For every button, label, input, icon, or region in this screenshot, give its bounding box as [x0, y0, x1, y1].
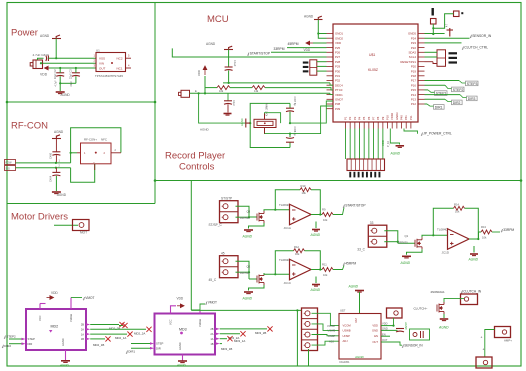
- svg-text:_: _: [92, 159, 95, 163]
- svg-text:2B: 2B: [81, 323, 84, 327]
- svg-text:U1: U1: [96, 49, 100, 53]
- wires connector 33 to mosfet gate: [384, 231, 398, 244]
- cap C10 loop green: [410, 329, 430, 340]
- svg-text:AGND: AGND: [404, 321, 408, 330]
- connector SV1 right of MCU: [437, 50, 446, 67]
- svg-text:STEP: STEP: [156, 342, 163, 346]
- svg-text:VDD2: VDD2: [390, 112, 394, 120]
- ground symbol AGND mcu top: [314, 16, 323, 19]
- svg-text:R12: R12: [294, 245, 299, 249]
- svg-text:Q3: Q3: [247, 210, 251, 214]
- wires MCU to SV1: [425, 51, 438, 53]
- wire loop to RF pin1: [71, 152, 77, 154]
- svg-text:C#07 8p: C#07 8p: [293, 97, 296, 107]
- svg-text:VMOT: VMOT: [208, 301, 217, 305]
- VDD arrow MD3: [177, 304, 184, 308]
- svg-text:P8: P8: [376, 116, 380, 120]
- wire agnd to C6: [228, 50, 230, 68]
- svg-text:33RPM: 33RPM: [274, 47, 285, 51]
- crystal agnd loop: [250, 103, 290, 147]
- svg-text:P2: P2: [348, 116, 352, 120]
- svg-text:NFC: NFC: [101, 138, 107, 142]
- feedback wire right JC1C: [305, 251, 321, 270]
- VDD arrow mid: [203, 66, 207, 75]
- svg-text:P41: P41: [404, 115, 408, 120]
- svg-text:AGND: AGND: [240, 118, 244, 126]
- net label JP_POWER_CTRL: [404, 129, 418, 134]
- wire Q2 source to gnd: [443, 314, 445, 318]
- svg-text:DG4451: DG4451: [340, 360, 351, 364]
- wire VMOT vertical from divider: [190, 181, 192, 311]
- wire C4 to net: [55, 155, 57, 163]
- MD3 top pins: [170, 308, 172, 314]
- svg-text:P12: P12: [411, 102, 417, 106]
- svg-text:R14: R14: [454, 203, 459, 207]
- wire POW net: [16, 162, 71, 164]
- X marks stray MD2 left: [122, 323, 127, 328]
- svg-text:0.1uF: 0.1uF: [233, 60, 236, 67]
- resistor R1: [217, 86, 230, 90]
- svg-text:P10: P10: [386, 115, 390, 120]
- U1 right pin stubs: [126, 57, 132, 59]
- ground symbol AGND rfcon top: [52, 135, 61, 139]
- wire output JC1A: [311, 214, 322, 216]
- wire SIG to bottom pin: [71, 164, 95, 183]
- wire mosfet source to ground: [407, 249, 423, 255]
- svg-text:2A: 2A: [81, 328, 84, 332]
- svg-text:USWB: USWB: [328, 329, 336, 333]
- svg-text:VDD: VDD: [51, 291, 58, 295]
- svg-text:AGND: AGND: [206, 42, 216, 46]
- svg-text:TPS7A4533TPS7A45: TPS7A4533TPS7A45: [95, 74, 123, 78]
- connector MOT single pin: [73, 220, 90, 231]
- svg-text:AGND: AGND: [304, 15, 314, 19]
- svg-text:P25: P25: [335, 46, 341, 50]
- ground symbol AGND below mcu: [396, 146, 405, 148]
- wire C2 down: [59, 76, 61, 83]
- ground symbol Q2 source: [244, 292, 253, 294]
- wire 33RPM to pin: [287, 47, 327, 49]
- svg-text:RF-CON+: RF-CON+: [84, 138, 97, 142]
- svg-text:OUT: OUT: [382, 338, 388, 342]
- svg-text:TL084D: TL084D: [437, 228, 449, 232]
- op-amp power ground JC1A: [315, 222, 317, 229]
- svg-text:MD2_1B: MD2_1B: [93, 343, 104, 347]
- svg-text:AGND: AGND: [354, 355, 365, 359]
- svg-text:SENSOR_IN: SENSOR_IN: [404, 344, 423, 348]
- svg-text:22uF: 22uF: [70, 81, 73, 87]
- svg-text:SCL4: SCL4: [409, 55, 417, 59]
- svg-text:P29: P29: [335, 65, 341, 69]
- svg-text:DIR2: DIR2: [4, 344, 11, 348]
- svg-text:45_C: 45_C: [209, 278, 217, 282]
- wire MD3_1B with X: [220, 343, 222, 345]
- MCU left pin names and stubs: [327, 32, 344, 111]
- op-amp power ground JC1D: [473, 246, 475, 253]
- net label DIR2 left: [2, 345, 4, 348]
- svg-text:MOT: MOT: [80, 230, 87, 234]
- wire J4 common down: [308, 349, 310, 366]
- net label START/STOP: [343, 205, 345, 208]
- net xtal2 to MCU pin: [265, 106, 334, 134]
- capacitor C4: [52, 152, 60, 155]
- svg-text:CLUTCH~: CLUTCH~: [414, 307, 428, 311]
- svg-text:RFP630: RFP630: [398, 241, 408, 245]
- svg-text:AGND: AGND: [59, 363, 70, 367]
- wire Q2 drain to connector: [444, 298, 464, 302]
- connector TP VDD 1pin: [387, 308, 403, 318]
- RF module U2 box: [81, 143, 112, 164]
- U$7 right wires: [381, 325, 394, 327]
- wire P24 to SENSOR_IN: [425, 37, 470, 39]
- svg-text:AGND: AGND: [348, 285, 359, 289]
- svg-text:AGND: AGND: [178, 342, 182, 350]
- svg-text:33RPM: 33RPM: [503, 228, 514, 232]
- svg-text:AMP+: AMP+: [504, 339, 512, 343]
- svg-text:JC1A: JC1A: [284, 226, 291, 230]
- svg-text:START/STOP: START/STOP: [250, 52, 271, 56]
- svg-text:AGND: AGND: [61, 93, 71, 97]
- svg-text:GND: GND: [372, 328, 378, 332]
- connector AMP+ 1pin: [495, 327, 511, 338]
- capacitor C1 series: [46, 56, 49, 62]
- svg-text:2B: 2B: [210, 327, 213, 331]
- wire mosfet drain to input: [264, 273, 290, 274]
- svg-text:START/STOP: START/STOP: [345, 204, 366, 208]
- svg-text:MD2: MD2: [51, 325, 59, 329]
- resistor R10 feedback: [300, 188, 311, 192]
- svg-text:CLUTCH_CTRL: CLUTCH_CTRL: [464, 46, 488, 50]
- wire GND5 bus: [425, 33, 445, 35]
- net label VMOT md2: [71, 297, 82, 299]
- svg-text:VDD: VDD: [335, 41, 341, 45]
- svg-text:EN: EN: [374, 334, 378, 338]
- svg-text:VDD: VDD: [381, 140, 385, 146]
- feedback wire JC1A: [275, 190, 300, 210]
- wire agnd to GND1 GND2: [318, 20, 326, 39]
- wire C8 to xtal1 net: [289, 112, 291, 124]
- svg-text:10k: 10k: [455, 210, 460, 214]
- svg-text:MD3_1B: MD3_1B: [221, 347, 232, 351]
- svg-text:P15: P15: [411, 88, 417, 92]
- ground symbol Q1 source: [402, 256, 411, 258]
- connector pad E: [181, 90, 190, 97]
- wire output JC1C: [311, 269, 322, 271]
- svg-text:NC2: NC2: [116, 56, 122, 60]
- frame divider Power/RF-CON y=102: [7, 101, 155, 103]
- wire mosfet drain to input: [264, 210, 290, 211]
- svg-text:MD2_2B: MD2_2B: [109, 327, 120, 331]
- feedback wire right JC1D: [465, 208, 479, 239]
- net label 33RPM: [501, 229, 503, 232]
- wire caps common: [60, 82, 76, 84]
- wire SIG net: [16, 167, 71, 169]
- net label STEP1: [435, 91, 448, 96]
- svg-text:P32: P32: [335, 79, 341, 83]
- svg-text:VDD: VDD: [304, 48, 311, 52]
- net label START/STOP: [248, 53, 250, 56]
- svg-text:P18: P18: [411, 74, 417, 78]
- frame divider vertical x=155: [154, 3, 156, 204]
- capacitor C3 decoupling: [72, 73, 80, 76]
- svg-text:VDD: VDD: [372, 324, 378, 328]
- svg-text:VMOT: VMOT: [85, 296, 94, 300]
- svg-text:1B: 1B: [81, 337, 84, 341]
- svg-text:P16: P16: [411, 83, 417, 87]
- svg-text:MD3: MD3: [179, 328, 187, 332]
- svg-text:STEP: STEP: [28, 337, 35, 341]
- wire STEP1 into MD3: [131, 343, 150, 345]
- MCU U$1 box: [333, 24, 418, 122]
- svg-text:GND3: GND3: [395, 112, 399, 120]
- svg-text:Q2: Q2: [247, 265, 251, 269]
- svg-text:P1: P1: [344, 116, 348, 120]
- svg-text:AGND: AGND: [57, 193, 67, 197]
- svg-text:+: +: [483, 348, 485, 352]
- svg-text:GND5: GND5: [408, 32, 416, 36]
- svg-text:U$1: U$1: [369, 53, 375, 57]
- svg-text:RESET/P21: RESET/P21: [400, 60, 416, 64]
- wire STEP2 into MD2: [9, 338, 22, 340]
- feedback wire JC1D: [433, 208, 453, 235]
- svg-text:P19: P19: [411, 69, 417, 73]
- ground symbol MD3 agnd: [178, 361, 187, 363]
- wire to power ground: [59, 83, 61, 91]
- svg-text:POW: POW: [6, 162, 13, 165]
- svg-text:45RPM: 45RPM: [345, 262, 356, 266]
- svg-text:DIR: DIR: [28, 342, 33, 346]
- wire MD3_2A with X: [220, 333, 240, 335]
- svg-text:DIR2: DIR2: [453, 101, 461, 105]
- svg-text:USWB: USWB: [343, 328, 351, 332]
- svg-text:EN: EN: [382, 332, 386, 336]
- pin header JP1: [347, 159, 385, 171]
- svg-text:Motor Drivers: Motor Drivers: [11, 212, 68, 223]
- svg-text:10k: 10k: [323, 218, 328, 222]
- voltage regulator U1 box: [96, 53, 126, 72]
- wire 45RPM to pin: [313, 42, 327, 44]
- svg-text:VSS: VSS: [99, 56, 105, 60]
- svg-text:AGND: AGND: [400, 261, 411, 265]
- svg-text:VCC: VCC: [38, 315, 42, 321]
- svg-text:DAP: DAP: [355, 318, 358, 323]
- svg-text:AGND: AGND: [40, 34, 50, 38]
- svg-text:C#04: C#04: [50, 175, 53, 182]
- svg-text:RFP630: RFP630: [240, 216, 250, 220]
- connector GND 1pin bottom: [476, 357, 492, 368]
- wires MCU bottom pins to header: [346, 129, 383, 160]
- wire left rail down: [296, 310, 298, 366]
- svg-text:DIR: DIR: [156, 346, 161, 350]
- svg-text:R13: R13: [481, 225, 486, 229]
- connector CLUTCH_IN 1pin: [461, 294, 478, 305]
- svg-text:C#06: C#06: [50, 152, 53, 159]
- MD2 top pins VCC VHIGH: [39, 304, 41, 310]
- svg-text:NC1: NC1: [116, 66, 122, 70]
- svg-text:4.7uF: 4.7uF: [55, 80, 58, 87]
- red stub symbol right: [447, 28, 454, 37]
- wire agnd to cap C4: [55, 139, 57, 152]
- wire xtal1 to mcu: [265, 113, 281, 123]
- svg-text:AGND: AGND: [242, 297, 253, 301]
- wire vdd arrow to bus: [204, 76, 206, 93]
- MCU bottom pin names and stubs: [344, 112, 413, 128]
- svg-text:VHIGH: VHIGH: [69, 314, 73, 322]
- svg-text:+: +: [481, 336, 483, 340]
- svg-text:22uF C3: 22uF C3: [70, 69, 73, 79]
- bus wire 1: [223, 82, 330, 84]
- svg-text:VCC: VCC: [169, 319, 173, 325]
- svg-text:R10: R10: [301, 184, 306, 188]
- svg-text:MD2_2A: MD2_2A: [134, 332, 145, 336]
- svg-text:1A: 1A: [81, 332, 84, 336]
- wire mosfet drain to input: [422, 235, 448, 237]
- svg-text:P26: P26: [335, 51, 341, 55]
- connector pads POW SIG: [5, 160, 16, 165]
- net label VMOT md3: [200, 304, 205, 310]
- op-amp power ground JC1C: [315, 277, 317, 284]
- svg-text:RFP630: RFP630: [240, 271, 250, 275]
- testpoint TP1 square: [431, 19, 437, 25]
- wire bus into MCU pins: [330, 83, 333, 85]
- svg-text:2N0602A1: 2N0602A1: [431, 290, 446, 294]
- net label DIR1 left: [126, 351, 128, 354]
- bus wire 3: [190, 92, 331, 94]
- svg-text:VDD: VDD: [177, 297, 184, 301]
- svg-text:33_C: 33_C: [357, 248, 365, 252]
- wire to MOT connector: [54, 224, 78, 226]
- svg-text:R11: R11: [322, 263, 327, 267]
- svg-text:10k: 10k: [295, 252, 300, 256]
- svg-text:Q1: Q1: [405, 234, 409, 238]
- svg-text:VIN: VIN: [99, 61, 104, 65]
- svg-text:P3: P3: [353, 116, 357, 120]
- svg-text:GND7: GND7: [335, 98, 343, 102]
- svg-text:GND2: GND2: [335, 36, 343, 40]
- svg-text:14k: 14k: [254, 89, 259, 93]
- wire MD3_2B with X: [220, 328, 267, 330]
- wire C9 to xtal2 net: [289, 134, 291, 137]
- svg-text:MCU: MCU: [207, 14, 229, 25]
- wire vss stub crystal: [199, 93, 251, 123]
- wire AMP+ down: [485, 330, 495, 358]
- svg-text:ST/SP_C: ST/SP_C: [209, 223, 223, 227]
- svg-text:P13: P13: [411, 98, 417, 102]
- svg-text:ADJ: ADJ: [343, 339, 349, 343]
- svg-text:GND: GND: [382, 327, 388, 331]
- svg-text:0.1uF: 0.1uF: [232, 100, 235, 107]
- svg-text:VDD: VDD: [197, 70, 201, 76]
- svg-text:45RPM: 45RPM: [288, 42, 299, 46]
- svg-text:MD3_2B: MD3_2B: [255, 331, 266, 335]
- frame junction dots: [154, 101, 157, 104]
- svg-text:AGND: AGND: [310, 288, 321, 292]
- net label DIR2: [452, 100, 463, 105]
- svg-text:2A: 2A: [210, 332, 213, 336]
- clutch driver U$7 box: [339, 314, 381, 360]
- svg-text:P40: P40: [400, 115, 404, 120]
- jumper shunt bars right: [449, 52, 458, 54]
- frame divider left column bottom y=203.5: [7, 203, 155, 205]
- wire jack top to cap: [38, 58, 44, 60]
- svg-text:P28: P28: [335, 60, 341, 64]
- svg-text:MD2_1A: MD2_1A: [115, 336, 126, 340]
- svg-text:TL084D: TL084D: [279, 258, 291, 262]
- capacitor C10 gnd: [396, 329, 404, 332]
- net xtal1 to MCU pin: [290, 101, 333, 123]
- crystal pins: [264, 114, 266, 120]
- svg-text:MD3_1A: MD3_1A: [234, 339, 245, 343]
- wires connector ST/STP to mosfet gate: [236, 206, 250, 217]
- svg-text:10k: 10k: [323, 273, 328, 277]
- svg-text:UNSP: UNSP: [343, 334, 351, 338]
- svg-text:JC1D: JC1D: [442, 251, 450, 255]
- wire P22 to CLUTCH_CTRL: [425, 42, 462, 44]
- wire VMOT rail to connector: [191, 309, 301, 311]
- svg-text:1A: 1A: [210, 337, 213, 341]
- svg-text:TL084D: TL084D: [279, 203, 291, 207]
- svg-text:1B: 1B: [210, 342, 213, 346]
- wires J4 to IC pins: [312, 313, 340, 325]
- svg-text:P23: P23: [411, 41, 417, 45]
- wire mosfet source to ground: [249, 285, 265, 291]
- feedback wire JC1C: [275, 251, 293, 274]
- wire AGND to input net: [55, 39, 57, 59]
- wire DAP to IC: [359, 292, 361, 314]
- svg-text:P11: P11: [409, 115, 413, 120]
- net label SENSOR_IN bottom: [402, 345, 404, 348]
- red wire reset to SV1: [425, 61, 434, 63]
- svg-text:Record Player: Record Player: [165, 151, 225, 162]
- wire DIR2 into MD2: [9, 343, 22, 345]
- resistor R2: [252, 86, 265, 90]
- capacitor C7 below bus: [227, 93, 229, 101]
- connector SV2 left of MCU: [310, 60, 317, 75]
- mosfet Q2 clutch: [437, 302, 444, 314]
- svg-text:OUT: OUT: [99, 66, 106, 70]
- net label DIR1: [434, 105, 445, 110]
- ground symbol Q3 source: [244, 230, 253, 232]
- feedback wire right JC1A: [311, 190, 320, 215]
- svg-text:P27: P27: [335, 55, 341, 59]
- svg-text:P22: P22: [411, 46, 417, 50]
- RF module pins: [77, 152, 81, 154]
- wire testpoints: [433, 14, 453, 29]
- svg-text:P38: P38: [335, 102, 341, 106]
- net 45RPM arrow: [306, 41, 313, 45]
- svg-text:DEC4: DEC4: [335, 83, 343, 87]
- svg-text:AGND: AGND: [310, 233, 321, 237]
- resistor R9 output: [322, 213, 333, 217]
- ground symbol Q2: [440, 319, 449, 321]
- ground symbol AGND power bottom: [56, 92, 65, 94]
- svg-text:DIR3: DIR3: [468, 97, 476, 101]
- net label CLUTCH_CTRL: [462, 47, 464, 50]
- svg-text:ADJ: ADJ: [329, 339, 335, 343]
- svg-text:45: 45: [221, 252, 225, 256]
- MCU right pin names and stubs: [400, 32, 424, 107]
- wire START/STOP to pin: [271, 51, 327, 53]
- wire cap C5 branch: [55, 168, 57, 173]
- svg-text:AGND: AGND: [390, 152, 401, 156]
- svg-text:VCOM: VCOM: [343, 324, 352, 328]
- svg-text:Controls: Controls: [179, 162, 215, 173]
- svg-text:VCOM: VCOM: [327, 324, 335, 328]
- motor driver MD2 box: [26, 309, 86, 350]
- wire output JC1D: [469, 232, 481, 239]
- wire jack pin2 to VIN: [43, 62, 97, 64]
- svg-text:P24: P24: [411, 36, 417, 40]
